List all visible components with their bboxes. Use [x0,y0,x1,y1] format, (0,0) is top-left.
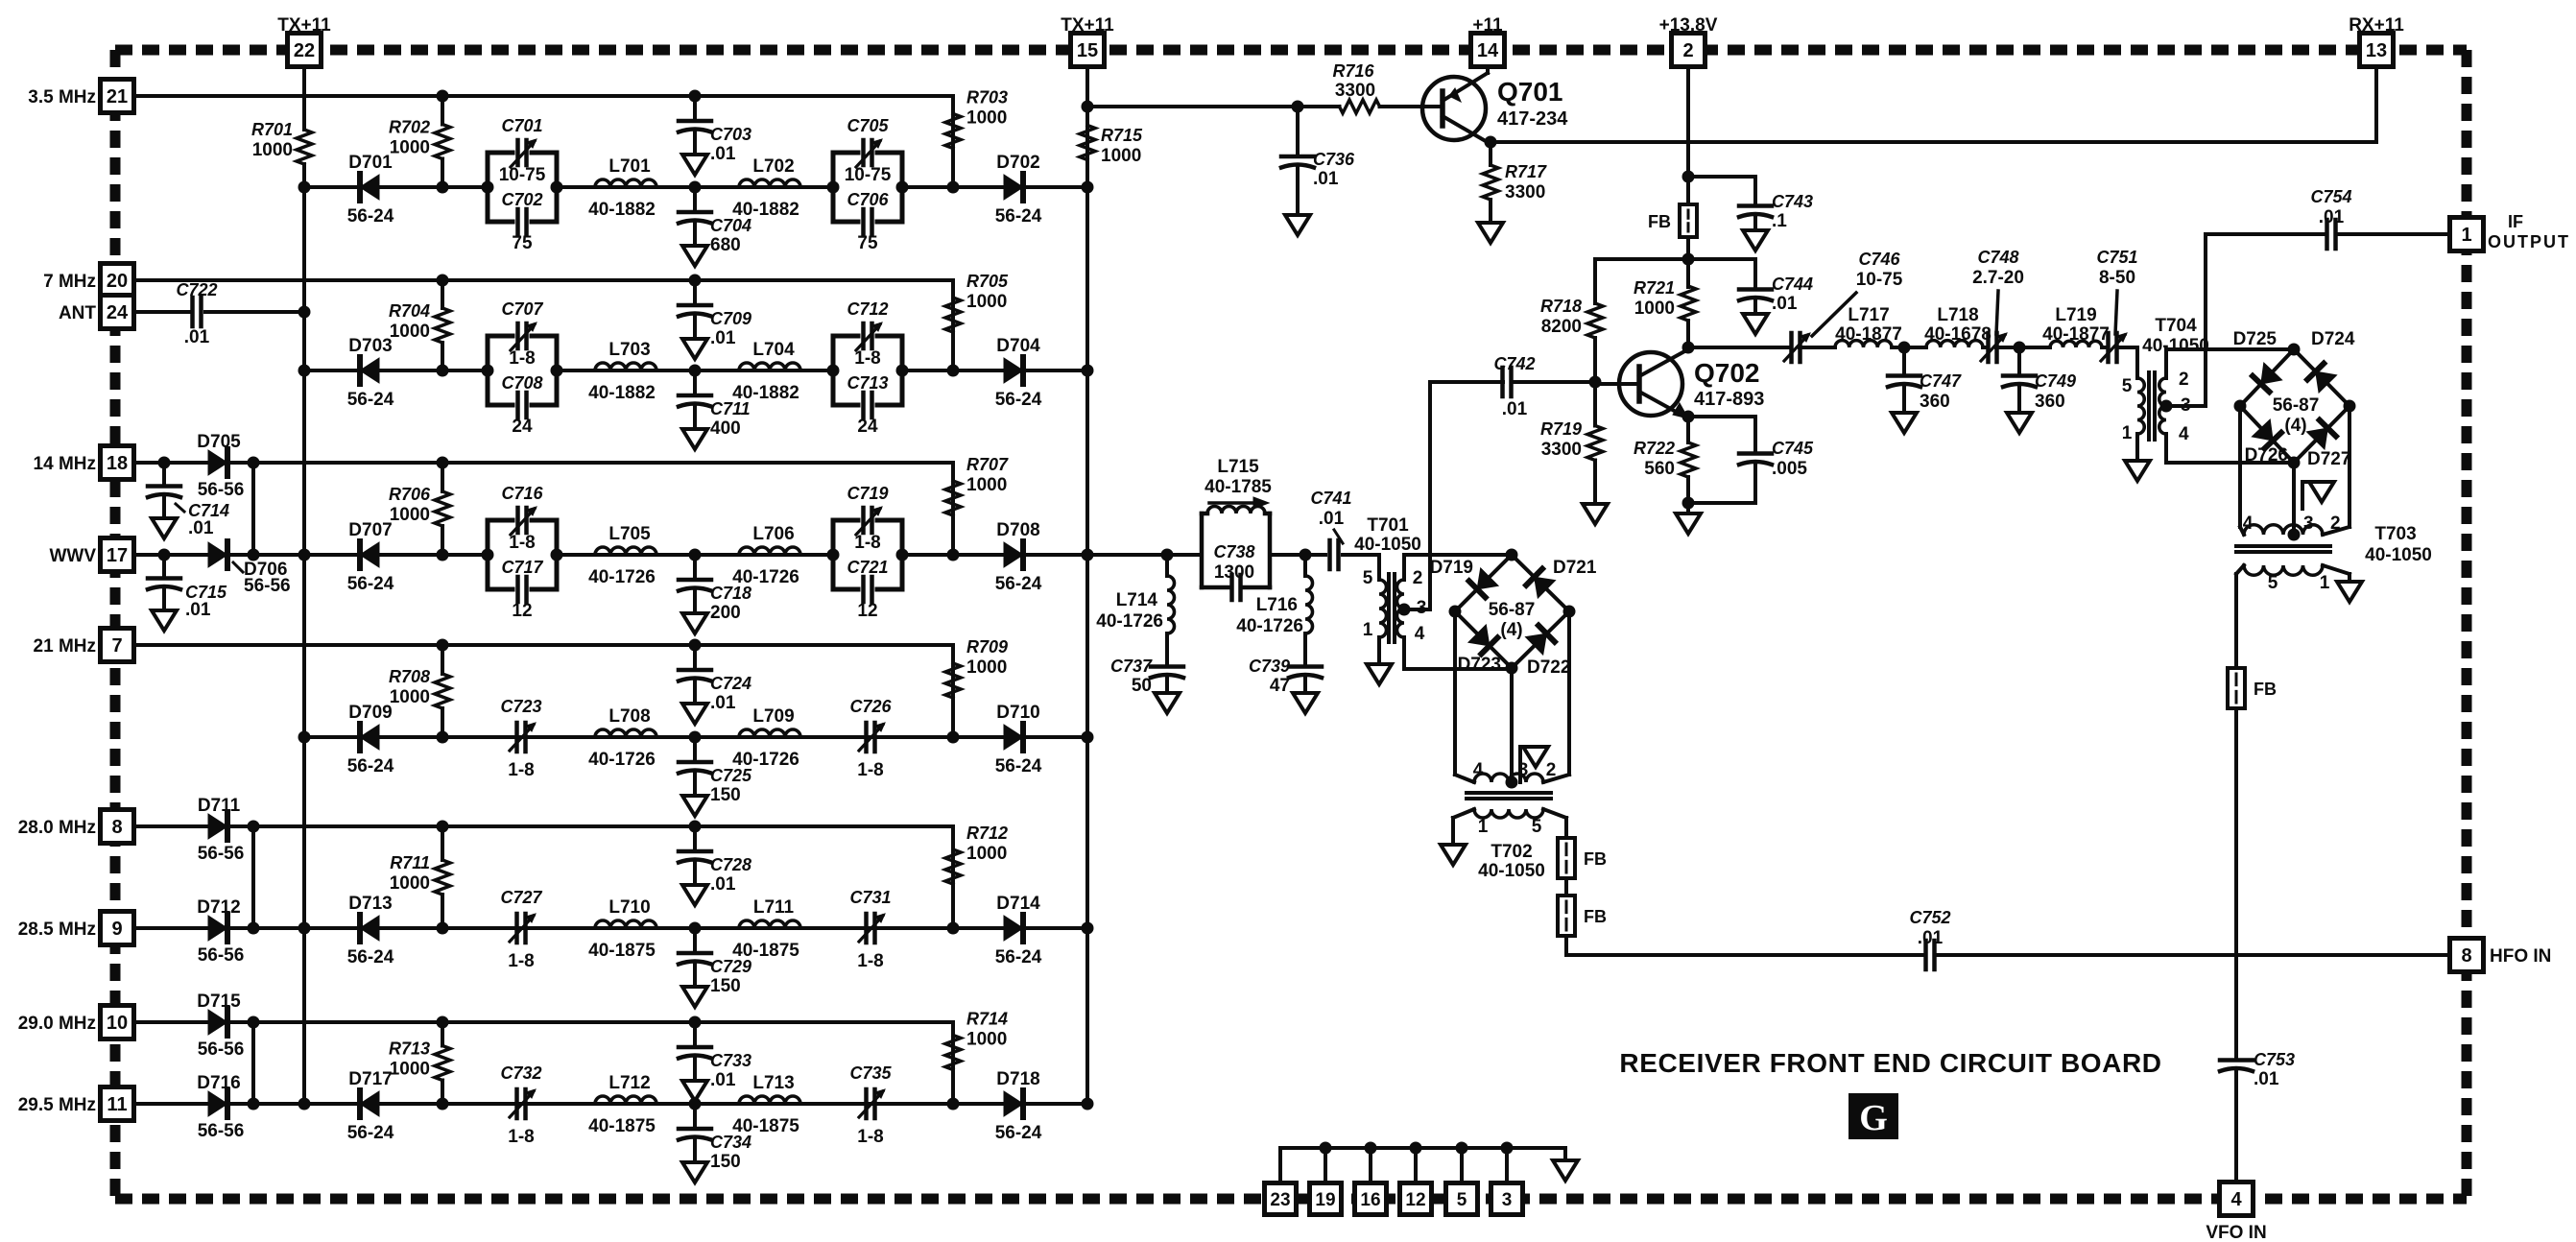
svg-text:T702: T702 [1491,842,1532,862]
svg-text:360: 360 [2035,392,2065,412]
wire ANT line [133,310,304,314]
svg-text:40-1882: 40-1882 [588,383,656,403]
svg-text:C709: C709 [710,309,751,328]
capacitor C722 [176,280,217,347]
wire band 4 rail [133,645,953,737]
svg-text:C738: C738 [1213,542,1254,561]
svg-text:C743: C743 [1772,192,1813,211]
terminal 22 [288,34,322,67]
svg-text:D709: D709 [348,703,392,723]
svg-text:1000: 1000 [966,292,1007,312]
svg-text:T703: T703 [2374,524,2416,544]
svg-text:.01: .01 [2319,207,2345,227]
svg-text:5: 5 [2268,573,2278,593]
svg-text:1-8: 1-8 [508,760,534,780]
svg-text:12: 12 [512,601,532,621]
terminal 23 [1265,1183,1297,1215]
svg-text:417-893: 417-893 [1694,389,1764,410]
capacitor C733 [679,1016,751,1102]
svg-text:L714: L714 [1116,590,1158,610]
svg-text:7 MHz: 7 MHz [43,272,96,292]
svg-text:56-24: 56-24 [995,947,1042,967]
svg-text:C728: C728 [710,855,751,874]
svg-text:150: 150 [710,1152,741,1172]
svg-text:11: 11 [107,1094,127,1115]
svg-text:50: 50 [1132,676,1152,696]
net RX+11 label [2349,15,2404,36]
svg-text:C716: C716 [501,484,543,503]
svg-text:R706: R706 [389,485,431,504]
svg-text:G: G [1859,1098,1888,1138]
svg-text:8200: 8200 [1541,317,1582,337]
svg-text:16: 16 [1360,1190,1380,1210]
transformer T702 [1467,760,1556,881]
diode D713 [347,894,394,967]
svg-text:FB: FB [1648,212,1671,231]
svg-text:R712: R712 [966,824,1008,843]
wire D715/D716 input merge [133,1016,304,1111]
capacitor C707/C708 tuned box [482,299,563,437]
resistor R706 [389,457,450,556]
resistor R711 [390,821,450,929]
svg-text:.01: .01 [185,600,211,620]
svg-text:1000: 1000 [966,108,1007,129]
capacitor C712/C713 tuned box [827,299,909,437]
wire band 1 rail [133,96,953,187]
wire busR to R716 branch [1087,101,1304,113]
svg-text:C735: C735 [849,1063,892,1083]
svg-text:D717: D717 [348,1069,392,1089]
net TX+11 label (right) [1061,15,1114,36]
svg-text:40-1726: 40-1726 [588,750,656,770]
svg-text:3: 3 [2303,514,2314,534]
wire band 2 rail [133,280,953,370]
svg-text:14: 14 [1477,40,1499,61]
svg-text:T701: T701 [1367,515,1409,536]
svg-text:1-8: 1-8 [854,533,880,553]
svg-text:1000: 1000 [390,322,430,342]
net 29.0 MHz label [18,1014,96,1034]
diode D718 [995,1069,1042,1143]
ferrite bead FB3 [1648,204,1697,237]
svg-text:C706: C706 [847,190,889,209]
svg-text:R704: R704 [389,301,430,321]
svg-text:56-24: 56-24 [995,206,1042,227]
capacitor C739 [1249,649,1322,713]
svg-text:.01: .01 [1918,928,1944,948]
terminal 15 [1071,34,1105,67]
svg-text:R717: R717 [1505,162,1547,181]
wire busR to mixer [1087,553,1373,557]
svg-text:1000: 1000 [252,140,293,160]
capacitor C754 [2310,187,2351,249]
diode D705 [197,432,244,500]
svg-text:C746: C746 [1858,250,1900,269]
wire band 4 filter line [298,731,1088,744]
node busR row taps [1082,101,1094,1111]
diode D709 [347,703,394,776]
svg-text:C705: C705 [847,116,889,135]
terminal 20 [101,264,134,298]
capacitor C719/C721 tuned box [827,484,909,621]
svg-text:2: 2 [1682,40,1693,61]
capacitor C736 [1281,107,1355,235]
ground T702 pin1 [1441,845,1466,865]
svg-text:D723: D723 [1458,655,1501,675]
svg-text:C729: C729 [710,957,751,976]
svg-text:Q701: Q701 [1497,77,1563,107]
terminal 11 [101,1087,134,1121]
svg-text:L719: L719 [2055,305,2096,325]
svg-text:.01: .01 [2254,1069,2279,1089]
wire T701 tap to C742 [1430,382,1503,609]
svg-text:.01: .01 [1319,509,1345,529]
svg-text:C713: C713 [847,373,888,393]
svg-text:1-8: 1-8 [509,348,535,369]
svg-text:D705: D705 [197,432,241,452]
wire Q702 collector IF chain [1688,347,2137,378]
net 28.0 MHz label [18,818,96,838]
svg-text:56-24: 56-24 [347,390,394,410]
net 14 MHz label [34,454,96,474]
svg-text:40-1726: 40-1726 [1096,611,1163,632]
svg-text:56-87: 56-87 [2273,395,2320,416]
wire band 1 filter line [298,181,1088,194]
svg-text:C744: C744 [1772,275,1813,294]
svg-text:C749: C749 [2035,371,2076,391]
svg-text:D701: D701 [348,153,393,173]
svg-text:1000: 1000 [1634,299,1675,319]
ground T702 centre tap [1520,747,1548,782]
svg-text:.01: .01 [710,874,736,895]
svg-text:C712: C712 [847,299,888,319]
resistor R709 [945,637,1008,714]
svg-text:R718: R718 [1540,297,1582,316]
svg-text:D707: D707 [348,520,392,540]
svg-text:56-24: 56-24 [995,1123,1042,1143]
svg-text:FB: FB [2254,680,2277,699]
svg-text:C719: C719 [847,484,888,503]
diode D706 [208,541,291,596]
svg-text:L718: L718 [1937,305,1978,325]
svg-text:680: 680 [710,235,741,255]
svg-text:40-1050: 40-1050 [2365,545,2432,565]
diode bridge D719/D721/D722/D723 ring [1430,549,1597,679]
svg-text:.005: .005 [1772,459,1807,479]
resistor R718 [1540,259,1603,382]
svg-text:40-1875: 40-1875 [588,1116,656,1136]
net 28.5 MHz label [18,920,96,940]
svg-text:.01: .01 [1502,399,1528,419]
svg-text:R703: R703 [966,88,1008,107]
ferrite bead FB4 [2228,668,2277,708]
svg-text:L703: L703 [608,340,650,360]
svg-text:D710: D710 [996,703,1039,723]
svg-text:56-24: 56-24 [347,1123,394,1143]
svg-text:C739: C739 [1249,657,1290,676]
board letter G [1849,1093,1898,1139]
inductor L704 [732,340,800,403]
node Q702 base [1589,376,1602,389]
resistor R717 [1483,142,1547,223]
svg-text:24: 24 [107,302,129,323]
inductor L705 [588,524,656,587]
svg-text:75: 75 [512,233,533,253]
svg-text:R719: R719 [1540,419,1582,439]
terminal 7 [101,629,134,662]
svg-text:56-56: 56-56 [198,1121,245,1141]
svg-text:2: 2 [2330,514,2341,534]
svg-text:56-24: 56-24 [995,756,1042,776]
svg-text:1: 1 [1363,620,1373,640]
svg-text:1-8: 1-8 [857,951,883,971]
svg-text:C702: C702 [501,190,542,209]
svg-text:C747: C747 [1920,371,1962,391]
ground T703 centre tap [2302,482,2334,509]
svg-text:C745: C745 [1772,439,1814,458]
svg-text:C723: C723 [500,697,541,716]
svg-text:150: 150 [710,976,741,996]
inductor L714 [1096,549,1174,650]
svg-text:D702: D702 [996,153,1039,173]
wire D711/D712 input merge [133,821,304,935]
terminal 18 [101,446,134,480]
svg-text:1-8: 1-8 [857,760,883,780]
svg-text:.01: .01 [1313,169,1339,189]
diode D703 [347,336,394,410]
ground T703 pin1 [2337,582,2362,602]
svg-text:C753: C753 [2254,1050,2295,1069]
capacitor C716/C717 tuned box [482,484,563,621]
svg-text:D716: D716 [197,1073,240,1093]
svg-text:R702: R702 [389,118,430,137]
svg-text:560: 560 [1644,459,1675,479]
svg-text:29.0 MHz: 29.0 MHz [18,1014,96,1034]
svg-text:4: 4 [2179,424,2189,444]
svg-text:22: 22 [294,40,315,61]
svg-text:C724: C724 [710,674,751,693]
capacitor C714 [148,457,229,539]
inductor L719 [2042,305,2110,347]
svg-text:.01: .01 [710,693,736,713]
diode D710 [995,703,1042,776]
svg-text:L705: L705 [608,524,651,544]
svg-text:28.5 MHz: 28.5 MHz [18,920,96,940]
resistor R719 [1540,382,1603,504]
svg-text:2.7-20: 2.7-20 [1972,268,2024,288]
capacitor C744 [1688,259,1813,334]
capacitor C723 [500,697,541,780]
svg-text:C754: C754 [2310,187,2351,206]
terminal 8 [2450,939,2484,972]
svg-text:3: 3 [2181,395,2191,416]
svg-text:47: 47 [1270,676,1290,696]
net 7 MHz label [43,272,96,292]
terminal 2 [1672,34,1705,67]
ground T701 primary [1367,664,1392,684]
transformer T701 [1354,515,1512,669]
svg-text:2: 2 [2179,370,2189,390]
capacitor C715 [148,549,227,632]
svg-text:1-8: 1-8 [509,533,535,553]
svg-text:D726: D726 [2245,445,2288,466]
resistor R708 [389,639,450,738]
svg-text:1000: 1000 [390,505,430,525]
svg-text:5: 5 [1457,1190,1467,1210]
resistor R716 [1298,61,1421,113]
svg-text:14 MHz: 14 MHz [34,454,96,474]
svg-text:1000: 1000 [390,138,430,158]
net VFO IN label [2206,1223,2266,1242]
svg-text:C725: C725 [710,766,752,785]
svg-text:1000: 1000 [966,657,1007,678]
capacitor C727 [500,888,542,971]
capacitor C737 [1110,649,1183,713]
net 21 MHz label [34,636,96,657]
capacitor C742 [1493,354,1535,419]
svg-text:C748: C748 [1977,248,2018,267]
svg-text:56-24: 56-24 [995,390,1042,410]
net WWV label [49,546,96,566]
svg-text:3: 3 [1417,598,1427,618]
capacitor C701/C702 tuned box [482,116,563,253]
svg-text:5: 5 [1532,817,1542,837]
svg-text:56-24: 56-24 [995,574,1042,594]
terminal 4 [2220,1182,2254,1216]
diode D707 [347,520,394,594]
svg-text:8: 8 [111,817,122,838]
capacitor C746 [1784,250,1903,362]
wire T703 pin5 VFO feed [2236,565,2244,668]
capacitor C704 [679,187,751,266]
svg-text:20: 20 [107,271,128,292]
svg-text:4: 4 [2230,1189,2242,1210]
svg-text:3300: 3300 [1335,81,1375,101]
wire D705/D706 input merge [133,457,304,561]
svg-text:L704: L704 [752,340,795,360]
capacitor C753 [2220,1041,2295,1089]
svg-text:56-24: 56-24 [347,756,394,776]
svg-text:.01: .01 [188,518,214,538]
svg-text:D725: D725 [2233,329,2278,349]
svg-text:12: 12 [857,601,877,621]
capacitor C735 [849,1063,892,1147]
diode D711 [198,796,245,864]
svg-text:(4): (4) [2284,416,2306,436]
svg-text:R709: R709 [966,637,1008,657]
svg-text:OUTPUT: OUTPUT [2488,232,2570,251]
svg-text:10-75: 10-75 [1856,270,1903,290]
svg-text:10: 10 [107,1013,128,1034]
svg-text:75: 75 [857,233,878,253]
capacitor C741 [1310,489,1351,569]
svg-text:D724: D724 [2311,329,2355,349]
inductor L717 [1835,305,1902,347]
svg-text:4: 4 [1473,760,1484,780]
svg-text:2: 2 [1546,760,1557,780]
svg-text:1000: 1000 [966,1030,1007,1050]
wire T702 pin5 to FB [1543,809,1566,838]
resistor R702 [389,90,450,188]
svg-text:L711: L711 [753,897,795,918]
capacitor C751 [2096,248,2137,362]
svg-text:360: 360 [1920,392,1950,412]
svg-text:(4): (4) [1500,620,1522,640]
svg-text:C733: C733 [710,1051,751,1070]
capacitor C718 [679,555,751,633]
net ANT label [59,303,96,323]
resistor R712 [945,824,1008,905]
svg-text:7: 7 [111,635,122,657]
svg-text:L701: L701 [608,156,651,177]
svg-text:R701: R701 [251,120,293,139]
svg-text:HFO IN: HFO IN [2490,946,2551,967]
svg-text:C714: C714 [188,501,229,520]
svg-text:40-1882: 40-1882 [588,200,656,220]
svg-text:R711: R711 [390,853,430,872]
svg-text:56-56: 56-56 [198,945,245,966]
svg-text:21 MHz: 21 MHz [34,636,96,657]
svg-text:D722: D722 [1527,657,1570,678]
svg-text:C731: C731 [849,888,891,907]
capacitor C711 [679,370,751,449]
svg-text:400: 400 [710,418,741,439]
svg-text:18: 18 [107,453,128,474]
svg-text:12: 12 [1405,1190,1425,1210]
svg-text:C715: C715 [185,583,227,602]
capacitor C731 [849,888,891,971]
svg-text:C711: C711 [710,399,751,418]
inductor L711 [732,897,800,961]
svg-text:R708: R708 [389,667,430,686]
transformer T704 [2122,316,2294,463]
capacitor C752 [1909,908,1950,969]
svg-text:29.5 MHz: 29.5 MHz [18,1095,96,1115]
wire band 6 rail [253,1022,953,1104]
svg-text:L709: L709 [752,706,794,727]
svg-text:4: 4 [1415,624,1425,644]
capacitor C709 [679,275,751,360]
svg-text:13: 13 [2366,40,2387,61]
svg-text:1: 1 [2320,573,2330,593]
svg-text:.01: .01 [184,327,210,347]
svg-text:5: 5 [2122,376,2133,396]
svg-text:FB: FB [1584,907,1607,926]
capacitor C747 [1888,342,1962,434]
svg-text:17: 17 [107,545,128,566]
resistor R713 [389,1016,450,1105]
svg-text:56-56: 56-56 [198,844,245,864]
svg-text:40-1726: 40-1726 [588,567,656,587]
svg-text:D719: D719 [1430,558,1473,578]
svg-text:L716: L716 [1256,595,1298,615]
capacitor C728 [679,821,751,906]
svg-text:.01: .01 [1772,294,1798,314]
svg-text:L708: L708 [608,706,650,727]
svg-text:L712: L712 [608,1073,650,1093]
terminal 1 [2450,218,2484,251]
wire band 3 filter line [298,549,1088,561]
svg-text:56-56: 56-56 [244,576,291,596]
svg-text:40-1050: 40-1050 [2142,336,2209,356]
svg-text:1000: 1000 [390,873,430,894]
terminal 9 [101,912,134,945]
svg-text:21: 21 [107,86,128,107]
node bus-ANT junction [298,306,311,319]
diode bridge D725/D724/D726/D727 ring [2233,329,2356,469]
wire +13.8V feed [1682,66,1695,204]
net +11 label [1472,15,1503,36]
